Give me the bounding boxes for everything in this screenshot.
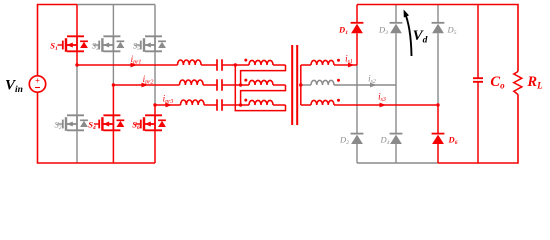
svg-text:+: + <box>35 76 40 85</box>
